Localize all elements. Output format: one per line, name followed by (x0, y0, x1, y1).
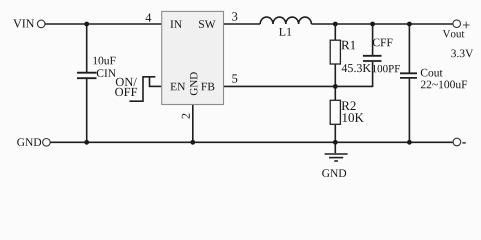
label 22~100uF (421, 81, 467, 89)
wire inductor to Vout terminal (311, 23, 453, 25)
node CIN bottom (84, 140, 89, 145)
terminal GND left (43, 139, 51, 147)
label L1 (279, 28, 291, 36)
wire Cout lower (408, 79, 410, 143)
IC pin name GND rotated (190, 72, 197, 95)
terminal minus (453, 138, 461, 146)
label OFF (115, 88, 137, 96)
wire VIN terminal to IC IN pin (45, 23, 162, 25)
terminal VIN (37, 20, 45, 28)
node Cout top (407, 22, 412, 27)
label minus (462, 142, 465, 144)
wire CIN branch upper (86, 24, 88, 72)
wire EN pin (150, 85, 162, 87)
wire R2 bottom (334, 124, 336, 142)
label 3.3V (451, 49, 473, 57)
node R1 top (333, 22, 338, 27)
IC pin name SW (199, 20, 215, 28)
label ON/ (116, 78, 137, 86)
wire ground rail (50, 141, 453, 143)
label Cout (421, 69, 443, 77)
wire CIN branch lower (86, 79, 88, 142)
IC pin name FB (201, 83, 214, 91)
label GND left terminal (17, 138, 41, 146)
label plus (463, 22, 470, 29)
label CIN (97, 69, 116, 77)
wire R1 bottom to FB node (334, 64, 336, 86)
pin number 4 (145, 13, 151, 21)
node Cout bottom (407, 140, 412, 145)
pin number 2 rotated (182, 114, 190, 119)
wire IC pin 2 to ground rail (192, 105, 194, 143)
label R2 (342, 101, 356, 110)
label 10uF (93, 57, 115, 65)
pin number 5 (232, 74, 237, 82)
label VIN (13, 20, 34, 28)
wire CFF upper (372, 24, 374, 55)
resistor R1 (330, 40, 340, 64)
node IC GND bottom (190, 140, 195, 145)
op-amp U1 regulator body (162, 11, 224, 104)
node FB junction (333, 84, 338, 89)
wire R2 top (334, 86, 336, 100)
terminal Vout plus (453, 20, 461, 28)
wire SW pin to inductor (224, 23, 261, 25)
wire CFF lower (372, 62, 374, 87)
ON/OFF step waveform (129, 77, 155, 101)
label 10K (343, 113, 364, 122)
capacitor Cout plates (400, 73, 417, 78)
capacitor CIN plates (77, 73, 97, 79)
node CIN top (84, 22, 89, 27)
inductor L1 (260, 17, 311, 24)
resistor R2 (330, 100, 340, 124)
label 45.3K (342, 64, 371, 72)
IC pin name EN (170, 83, 185, 91)
ground symbol (325, 142, 348, 161)
wire Cout upper (408, 24, 410, 73)
pin number 3 (232, 12, 237, 20)
wire FB pin to CFF bottom (224, 85, 373, 87)
label GND ground symbol (322, 169, 346, 177)
label CFF (373, 39, 393, 47)
label 100PF (373, 65, 400, 72)
node R2 bottom (333, 140, 338, 145)
wire waveform tick to EN (149, 77, 151, 87)
IC pin name IN (170, 20, 181, 28)
capacitor CFF plates (363, 56, 382, 61)
wire R1 top (334, 24, 336, 40)
label Vout (443, 30, 465, 37)
label R1 (341, 41, 355, 50)
node CFF top (370, 22, 375, 27)
